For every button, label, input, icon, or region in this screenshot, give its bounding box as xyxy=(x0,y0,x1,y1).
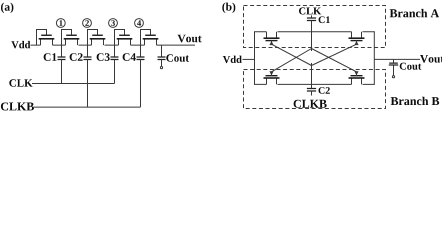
wire CLK (a) xyxy=(32,83,115,85)
node 3 circled label xyxy=(109,19,118,28)
transistor M1 (diode-connected) xyxy=(37,30,53,46)
wire Vdd tap (b) xyxy=(243,58,255,60)
label CLKB (a) xyxy=(1,103,34,111)
transistor M5 (diode-connected) xyxy=(141,30,157,46)
capacitor C3 (a) xyxy=(114,45,116,57)
label Branch A xyxy=(390,9,439,17)
arrowhead at gate xyxy=(355,42,358,45)
label C4 (a) xyxy=(123,53,136,61)
label CLKB (b) xyxy=(294,100,327,108)
capacitor C4 (a) xyxy=(140,45,142,57)
transistor MA2 (top-right) xyxy=(352,32,362,38)
label C2 (a) xyxy=(70,53,83,61)
wire Vdd rail (b left edge) xyxy=(254,31,256,85)
capacitor C1 (b) xyxy=(311,15,313,17)
wire node B (bottom) xyxy=(255,83,375,85)
wire CLKB (a) xyxy=(34,106,141,108)
label Cout (b) xyxy=(400,63,422,70)
arrowhead at gate xyxy=(270,42,273,45)
label (a) xyxy=(1,3,13,13)
node B stub xyxy=(311,63,313,84)
label C2 (b) xyxy=(319,87,330,94)
wire gate MA1 to node B xyxy=(272,44,312,65)
transistor M4 (diode-connected) xyxy=(115,30,131,46)
transistor MB2 (bottom-right) xyxy=(352,78,362,84)
wire Vout tap (b) xyxy=(374,58,420,60)
capacitor C1 (a) xyxy=(61,45,63,57)
wire pump chain rail xyxy=(31,44,196,46)
label C1 (b) xyxy=(319,16,330,23)
transistor MB1 (bottom-left) xyxy=(267,78,277,84)
wire gate MB1 to node A xyxy=(272,49,312,72)
dashed box Branch A xyxy=(244,6,386,48)
label C1 (a) xyxy=(44,53,57,61)
label CLK (a) xyxy=(9,79,32,86)
wire node A (top) xyxy=(255,31,375,33)
node A stub xyxy=(311,32,313,51)
label Vdd (a) xyxy=(11,41,30,49)
transistor M2 (diode-connected) xyxy=(62,30,78,46)
label Vdd (b) xyxy=(223,56,242,64)
capacitor Cout (b) xyxy=(393,59,395,62)
node 1 circled label xyxy=(56,19,65,28)
node 2 circled label xyxy=(83,19,92,28)
transistor M3 (diode-connected) xyxy=(88,30,104,46)
label Branch B xyxy=(391,97,440,105)
label Vout (b) xyxy=(420,55,442,63)
wire gate MA2 to node B xyxy=(312,44,357,65)
wire gate MB2 to node A xyxy=(312,49,357,72)
label Cout (a) xyxy=(166,54,189,61)
label CLK (b) xyxy=(299,7,321,14)
transistor MA1 (top-left) xyxy=(267,32,277,38)
wire Vout rail (b right edge) xyxy=(373,31,375,85)
label Vout (a) xyxy=(178,35,202,43)
arrowhead at gate xyxy=(355,72,358,75)
capacitor Cout (a) xyxy=(161,45,163,57)
label C3 (a) xyxy=(97,53,110,61)
node 4 circled label xyxy=(135,19,144,28)
label (b) xyxy=(222,3,235,13)
capacitor C2 (b) xyxy=(311,84,313,88)
capacitor C2 (a) xyxy=(87,45,89,57)
arrowhead at gate xyxy=(270,72,273,75)
dashed box Branch B xyxy=(244,70,386,109)
